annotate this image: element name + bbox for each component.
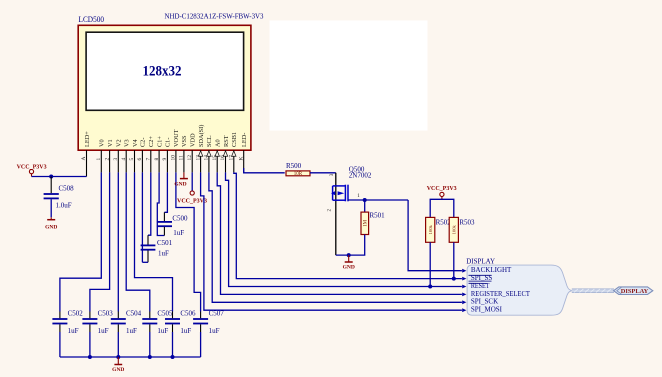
svg-text:R500: R500 <box>286 162 302 170</box>
harness entry BACKLIGHT <box>462 266 512 274</box>
wire VCC split to R502 R503 <box>430 199 454 217</box>
wire R501 bottom to source <box>336 235 365 256</box>
wire V4 to C506 <box>135 172 173 311</box>
svg-text:11: 11 <box>179 155 185 161</box>
svg-text:C502: C502 <box>68 309 84 317</box>
wire gate to node <box>348 199 408 201</box>
ground GND at VSS pin <box>174 172 188 187</box>
svg-text:C1+: C1+ <box>156 136 163 147</box>
svg-text:17: 17 <box>229 155 235 161</box>
LCD screen area <box>86 32 244 110</box>
svg-text:100k: 100k <box>428 225 433 235</box>
svg-text:K: K <box>238 157 244 161</box>
svg-text:2: 2 <box>104 158 110 161</box>
svg-text:VCC_P3V3: VCC_P3V3 <box>177 199 207 205</box>
svg-text:5: 5 <box>129 158 135 161</box>
pin 17 CSB1 input arrow <box>229 132 239 172</box>
svg-text:C501: C501 <box>157 239 173 247</box>
capacitor C500 <box>157 212 188 237</box>
svg-text:DISPLAY: DISPLAY <box>621 288 649 295</box>
wire R500 to Q500 drain <box>310 172 336 174</box>
wire VOUT to C507 <box>176 172 201 311</box>
ground GND below C508 <box>45 217 57 230</box>
svg-text:15: 15 <box>212 155 218 161</box>
pin 12 VDD <box>187 133 197 172</box>
wire LED- to R500 <box>244 168 285 173</box>
svg-text:SPI_SCK: SPI_SCK <box>471 298 498 306</box>
harness entry RESET <box>462 282 490 290</box>
wire C1- jog to C500 <box>164 172 167 212</box>
svg-text:14: 14 <box>204 155 210 161</box>
svg-text:SCL: SCL <box>206 135 213 147</box>
pin 11 VSS <box>179 135 189 172</box>
svg-text:1M: 1M <box>364 219 369 226</box>
svg-text:10R: 10R <box>294 172 303 177</box>
junction R502 RESET <box>428 285 432 289</box>
svg-text:C503: C503 <box>98 309 114 317</box>
junction C505 rail <box>148 355 152 359</box>
svg-text:1.0uF: 1.0uF <box>56 202 72 210</box>
wire V0 to C502 <box>60 172 101 311</box>
svg-text:1uF: 1uF <box>158 250 169 258</box>
wire bottom ground rail <box>60 356 201 358</box>
svg-text:16: 16 <box>220 155 226 161</box>
svg-text:GND: GND <box>174 182 186 188</box>
wire V2 to C504 <box>117 172 119 311</box>
svg-text:1: 1 <box>96 158 102 161</box>
resistor R503 <box>449 217 475 242</box>
svg-text:9: 9 <box>162 158 168 161</box>
junction source GND <box>347 253 351 257</box>
harness cable <box>572 289 614 293</box>
svg-text:GND: GND <box>45 224 57 230</box>
svg-text:R503: R503 <box>459 218 475 226</box>
wire V1 to C503 <box>90 172 110 311</box>
svg-text:VCC_P3V3: VCC_P3V3 <box>427 186 457 192</box>
svg-text:1uF: 1uF <box>209 327 220 335</box>
pin 9 C1- <box>162 138 172 173</box>
svg-text:DISPLAY: DISPLAY <box>466 258 495 266</box>
wire C1+ jog down left <box>157 172 164 235</box>
svg-text:C506: C506 <box>180 309 196 317</box>
svg-text:1uF: 1uF <box>157 327 168 335</box>
pin 15 A0 input arrow <box>212 139 222 172</box>
svg-text:V2: V2 <box>116 139 123 147</box>
wire drain vertical <box>335 173 337 255</box>
capacitor C503 <box>82 309 113 357</box>
capacitor C508 <box>44 177 75 218</box>
pin A LED+ <box>81 131 91 177</box>
svg-text:SDA(SI): SDA(SI) <box>198 125 205 147</box>
capacitor C505 <box>142 309 173 357</box>
svg-text:V3: V3 <box>124 139 131 147</box>
svg-text:1uF: 1uF <box>173 229 184 237</box>
wire R502 to RESET <box>429 242 431 286</box>
svg-text:128x32: 128x32 <box>143 64 182 80</box>
wire SDA(SI) to harness SPI_MOSI <box>201 172 462 310</box>
harness connector DISPLAY <box>466 258 572 316</box>
svg-text:13: 13 <box>195 155 201 161</box>
wire C2- down <box>141 172 143 262</box>
svg-text:R501: R501 <box>370 212 386 220</box>
svg-text:LED+: LED+ <box>84 131 91 147</box>
svg-text:SPI_MOSI: SPI_MOSI <box>471 306 503 314</box>
svg-text:C507: C507 <box>209 309 225 317</box>
pin 6 C2- <box>137 138 147 173</box>
junction R503 SPI_SS <box>452 277 456 281</box>
svg-text:VOUT: VOUT <box>173 129 180 147</box>
resistor R502 <box>426 217 452 242</box>
resistor R501 <box>361 212 385 235</box>
svg-text:LED-: LED- <box>241 133 248 147</box>
pin K LED- <box>238 133 248 173</box>
svg-text:1uF: 1uF <box>68 327 79 335</box>
pin 4 V3 <box>121 139 131 172</box>
svg-text:C505: C505 <box>157 309 173 317</box>
wire CSB1 to harness SPI_SS <box>234 172 462 278</box>
svg-text:GND: GND <box>112 367 124 373</box>
wire C501 bottom to C2- <box>142 261 148 263</box>
capacitor C506 <box>165 309 196 357</box>
wire VCC to LED+ <box>32 176 87 178</box>
pin 2 V1 <box>104 139 114 172</box>
svg-text:CSB1: CSB1 <box>231 132 238 147</box>
wire C2+ jog to C501 <box>148 172 151 235</box>
svg-text:VDD: VDD <box>190 133 197 147</box>
harness entry SPI_SS <box>462 274 492 282</box>
harness entry SPI_SCK <box>462 298 498 306</box>
harness entry REGISTER_SELECT <box>462 290 530 298</box>
pin 5 V4 <box>129 138 139 172</box>
svg-text:NHD-C12832A1Z-FSW-FBW-3V3: NHD-C12832A1Z-FSW-FBW-3V3 <box>165 12 264 21</box>
pin 7 C2+ <box>146 136 156 173</box>
junction at C508 tap <box>49 175 53 179</box>
power port VCC_P3V3 left <box>17 164 47 176</box>
svg-text:2N7002: 2N7002 <box>349 172 372 180</box>
svg-text:3: 3 <box>113 158 119 161</box>
svg-text:12: 12 <box>187 155 193 161</box>
svg-text:V0: V0 <box>99 139 106 147</box>
pin 13 SDA(SI) input arrow <box>195 125 205 173</box>
wire gate node to harness BACKLIGHT <box>408 200 462 271</box>
wire V3 to C505 <box>126 172 150 311</box>
harness entry SPI_MOSI <box>462 306 502 314</box>
svg-text:1uF: 1uF <box>180 327 191 335</box>
svg-text:GND: GND <box>343 265 355 271</box>
wire RST to harness RESET <box>226 172 462 286</box>
svg-text:8: 8 <box>154 158 160 161</box>
svg-text:REGISTER_SELECT: REGISTER_SELECT <box>471 290 531 298</box>
svg-text:C500: C500 <box>172 214 188 222</box>
wire R503 to SPI_SS <box>453 242 455 278</box>
svg-text:1uF: 1uF <box>98 327 109 335</box>
svg-text:A0: A0 <box>215 139 222 147</box>
wire SCL to harness SPI_SCK <box>209 172 462 302</box>
svg-text:C508: C508 <box>59 185 75 193</box>
pin 3 V2 <box>113 139 123 172</box>
svg-text:7: 7 <box>146 158 152 161</box>
junction C503 rail <box>88 355 92 359</box>
power port VCC_P3V3 at VDD pin <box>177 172 207 204</box>
junction C506 rail <box>171 355 175 359</box>
capacitor C507 <box>193 309 224 357</box>
pin 8 C1+ <box>154 136 164 173</box>
pin 1 V0 <box>96 139 106 172</box>
svg-text:C2+: C2+ <box>148 136 155 147</box>
junction C504 rail <box>116 355 120 359</box>
svg-text:4: 4 <box>121 158 127 161</box>
off-sheet connector tag DISPLAY <box>614 287 653 295</box>
svg-text:V1: V1 <box>107 139 114 147</box>
transistor Q500 2N7002 <box>328 165 372 211</box>
svg-text:10: 10 <box>171 155 177 161</box>
svg-text:C504: C504 <box>126 309 142 317</box>
pin 14 SCL input arrow <box>204 135 214 172</box>
svg-text:BACKLIGHT: BACKLIGHT <box>471 266 512 274</box>
resistor R500 <box>286 162 310 177</box>
pin 16 RST input arrow <box>220 135 230 172</box>
capacitor C501 <box>141 235 173 262</box>
svg-text:A: A <box>81 157 87 161</box>
pin 10 VOUT <box>171 129 181 172</box>
capacitor C504 <box>111 309 142 357</box>
svg-text:1uF: 1uF <box>126 327 137 335</box>
ground GND bottom rail <box>112 357 124 373</box>
white rectangle region top-right <box>270 20 428 130</box>
junction gate R501 <box>363 198 367 202</box>
power port VCC_P3V3 right <box>427 186 457 199</box>
svg-text:V4: V4 <box>132 138 139 147</box>
wire R501 top <box>364 200 366 212</box>
svg-text:VSS: VSS <box>181 135 188 147</box>
svg-text:C2-: C2- <box>140 138 147 147</box>
svg-text:100k: 100k <box>452 225 457 235</box>
svg-text:C1-: C1- <box>165 138 172 147</box>
LCD module U LCD500 body <box>78 25 251 150</box>
ground GND at Q500 source <box>343 255 355 271</box>
svg-text:6: 6 <box>137 158 143 161</box>
wire A0 to harness REGISTER_SELECT <box>217 172 462 294</box>
capacitor C502 <box>52 309 83 357</box>
svg-text:RST: RST <box>223 135 230 147</box>
svg-text:LCD500: LCD500 <box>79 14 105 24</box>
